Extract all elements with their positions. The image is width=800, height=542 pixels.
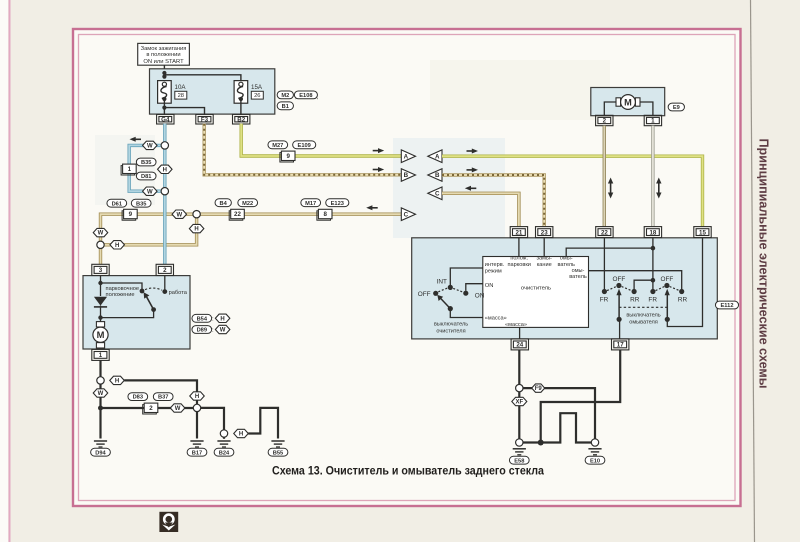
- splice circle E58: [516, 439, 523, 446]
- svg-text:W: W: [147, 144, 153, 150]
- OFF1 contact dot: [616, 283, 621, 288]
- washer pivot dot 2: [665, 317, 670, 322]
- connector 15: [694, 227, 711, 238]
- svg-text:D94: D94: [95, 450, 106, 456]
- svg-text:H: H: [239, 432, 243, 438]
- connector 17: [612, 339, 629, 350]
- svg-text:положение: положение: [106, 292, 135, 298]
- wire 23 to box: [543, 238, 545, 257]
- svg-text:парковочное: парковочное: [106, 286, 140, 292]
- label B17: [187, 448, 207, 456]
- svg-text:21: 21: [515, 229, 522, 236]
- wire омыватель top to washer switch: [566, 248, 653, 256]
- label E9: [668, 103, 684, 111]
- svg-text:омы-: омы-: [572, 268, 585, 274]
- svg-text:INT: INT: [437, 278, 447, 285]
- svg-text:B: B: [435, 172, 440, 179]
- connector 3 motor: [92, 264, 109, 275]
- splice circle E10: [591, 439, 598, 446]
- label B35 lower: [131, 199, 151, 207]
- washer pump box: [591, 88, 665, 116]
- svg-text:B35: B35: [141, 160, 151, 166]
- label D83: [128, 393, 148, 401]
- hexagon W below splice: [93, 389, 108, 397]
- splice circle 24: [516, 384, 523, 391]
- svg-text:15: 15: [699, 229, 706, 236]
- wire 22 to FR1: [603, 238, 605, 289]
- wiper switch arm: [437, 295, 450, 309]
- wire 21 to box: [518, 238, 520, 257]
- connector 1 motor: [92, 349, 109, 360]
- wire pump 1 to switch 18: [651, 126, 654, 227]
- wire A from B2: [241, 124, 401, 156]
- wire 18 to FR2: [652, 238, 654, 289]
- label E112: [715, 301, 738, 309]
- label 28 box: [175, 91, 187, 99]
- wire to ground B24: [223, 437, 225, 439]
- svg-text:E108: E108: [299, 93, 312, 99]
- svg-text:F3: F3: [201, 116, 209, 123]
- label полож парковки: [507, 256, 530, 268]
- connector F3: [196, 114, 213, 124]
- svg-text:RR: RR: [678, 297, 688, 304]
- svg-text:E9: E9: [673, 105, 680, 111]
- label D94: [91, 448, 111, 456]
- FR1 contact dot: [602, 289, 607, 294]
- svg-text:18: 18: [649, 229, 656, 236]
- INT contact dot: [448, 285, 453, 290]
- svg-text:M: M: [97, 329, 105, 340]
- wire pump 2 to switch 22: [603, 126, 606, 227]
- hexagon W on ground wire: [170, 404, 185, 412]
- ground B55: [271, 441, 284, 447]
- svg-text:ватель: ватель: [569, 274, 587, 280]
- svg-text:H: H: [194, 227, 198, 233]
- wiper switch dashed arc: [438, 288, 463, 292]
- wire horizontal to B17: [101, 407, 194, 409]
- junction dot 18 wire: [651, 246, 656, 251]
- label E123: [326, 199, 349, 207]
- wire ON to box: [466, 284, 483, 291]
- label B55: [268, 448, 288, 456]
- hexagon H on riser: [190, 392, 205, 400]
- arrow on wire A right: [467, 149, 479, 154]
- outer pink frame: [73, 29, 741, 506]
- svg-text:B54: B54: [197, 316, 208, 322]
- svg-text:2: 2: [149, 405, 153, 412]
- blue wire left loop: [129, 145, 161, 191]
- svg-text:FR: FR: [600, 297, 609, 304]
- OFF2 contact dot: [664, 283, 669, 288]
- wire C from motor connector 3: [101, 214, 402, 264]
- right page crease line: [751, 0, 755, 542]
- ground E10: [588, 449, 601, 455]
- wire splice down: [99, 384, 101, 438]
- washer switch 2 dashed arc: [656, 287, 680, 291]
- FR2 contact dot: [650, 289, 655, 294]
- washer arm 1: [616, 289, 621, 320]
- svg-text:M22: M22: [242, 201, 253, 207]
- connector 24: [511, 339, 528, 350]
- svg-text:24: 24: [516, 342, 523, 349]
- wire jog to B55: [248, 408, 278, 439]
- svg-text:10A: 10A: [175, 84, 187, 91]
- hexagon H on branch: [110, 241, 125, 249]
- page inner area: [74, 30, 740, 505]
- svg-text:режим: режим: [485, 268, 502, 274]
- splice circle 2: [193, 404, 200, 411]
- ground D94: [94, 441, 107, 447]
- hexagon XF: [512, 397, 527, 405]
- hexagon H right of splice: [110, 376, 125, 384]
- label E108: [294, 91, 317, 99]
- svg-text:OFF: OFF: [613, 276, 626, 283]
- svg-text:B4: B4: [220, 201, 228, 207]
- svg-text:W: W: [98, 231, 104, 237]
- double arrow on pump wire 1: [656, 178, 661, 199]
- wire A to connector 15: [442, 156, 703, 226]
- svg-text:Принципиальные электрические с: Принципиальные электрические схемы: [757, 139, 771, 389]
- svg-text:очиститель: очиститель: [521, 286, 551, 292]
- svg-text:кание: кание: [537, 262, 552, 268]
- svg-text:M: M: [624, 97, 632, 107]
- motor internal wire left: [100, 276, 102, 296]
- wire splice2 to B24: [201, 408, 224, 430]
- wire INT to box: [450, 268, 483, 285]
- label 26 box: [251, 91, 263, 99]
- double arrow on pump wire 2: [608, 178, 613, 199]
- washer arm 2: [665, 289, 670, 320]
- inner function box: [483, 257, 589, 328]
- label B1: [277, 102, 293, 110]
- ground E58: [513, 449, 526, 455]
- grommet 2 on ground wire: [143, 403, 158, 414]
- wire B to connector 23: [442, 175, 544, 227]
- svg-text:15A: 15A: [251, 84, 263, 91]
- svg-text:Замок зажигания: Замок зажигания: [141, 46, 187, 52]
- svg-text:W: W: [220, 328, 226, 334]
- motor switch dashed arc: [145, 288, 162, 290]
- svg-text:ON или START: ON или START: [143, 59, 184, 65]
- svg-text:1: 1: [651, 118, 655, 125]
- label B24: [214, 448, 234, 456]
- fuse box: [150, 69, 275, 114]
- svg-text:26: 26: [254, 93, 260, 99]
- connector 22 switch: [596, 227, 613, 238]
- triangle B left: [401, 169, 415, 182]
- pump motor symbol: [616, 95, 640, 110]
- wire ignition to fuse box: [163, 65, 165, 82]
- grommet 9 on wire C: [122, 209, 137, 220]
- hexagon W lower: [143, 187, 158, 195]
- wiper motor box: [83, 276, 190, 349]
- label E58: [509, 456, 529, 464]
- triangle B right: [428, 169, 442, 182]
- hexagon F9: [532, 384, 545, 392]
- arrow on wire C left: [366, 205, 378, 210]
- label M2: [277, 91, 293, 99]
- label B4: [215, 199, 231, 207]
- triangle A right: [428, 150, 442, 163]
- connector 2 pump: [596, 115, 613, 125]
- wiper washer switch box: [412, 238, 718, 339]
- label B54 with H: [192, 314, 230, 323]
- wire jog to E10: [541, 413, 592, 442]
- label E109: [293, 141, 316, 149]
- svg-text:W: W: [176, 212, 182, 218]
- svg-text:интерв.: интерв.: [485, 262, 505, 268]
- connector circle lower: [161, 188, 168, 195]
- hexagon H on blue wire: [158, 165, 173, 173]
- svg-text:XF: XF: [515, 400, 523, 406]
- svg-text:1: 1: [99, 352, 103, 359]
- svg-text:22: 22: [234, 211, 241, 218]
- junction dot feed 2: [162, 75, 166, 79]
- svg-text:D61: D61: [112, 201, 122, 207]
- junction dot motor: [98, 315, 102, 319]
- svg-text:A: A: [404, 153, 409, 160]
- label интерв режим: [485, 262, 505, 274]
- hexagon W left riser: [93, 228, 108, 236]
- wire масса to 24: [519, 327, 521, 339]
- wire C to connector 21: [442, 193, 519, 226]
- arrow top left: [130, 137, 142, 142]
- svg-text:H: H: [115, 243, 119, 249]
- motor switch pivot dot: [151, 307, 156, 312]
- работа contact dot: [162, 289, 167, 294]
- ground B24: [217, 441, 230, 447]
- wire pivot to motor branch: [101, 310, 154, 318]
- label M27: [268, 141, 288, 149]
- arrow on wire B left: [373, 167, 385, 172]
- label B35 upper: [136, 158, 156, 166]
- junction dot ground wire: [98, 406, 103, 411]
- svg-text:E123: E123: [331, 201, 344, 207]
- hexagon H below circle: [189, 224, 204, 232]
- wire splice to right riser: [124, 380, 197, 404]
- svg-text:23: 23: [541, 229, 548, 236]
- grommet 9 on wire A: [280, 151, 295, 162]
- connector 23: [536, 227, 553, 238]
- scan mottling tints: [95, 60, 610, 238]
- ON contact dot: [463, 291, 468, 296]
- wiper pivot dot: [448, 306, 453, 311]
- wire splice E58 to dot: [523, 441, 541, 443]
- wire branch to F3: [164, 108, 204, 115]
- svg-text:OFF: OFF: [661, 276, 674, 283]
- svg-text:H: H: [163, 167, 167, 173]
- wire 15 to pivot2: [667, 238, 702, 327]
- svg-text:B2: B2: [237, 116, 245, 123]
- connector B2: [233, 114, 250, 124]
- connector 1 pump: [644, 115, 661, 125]
- wire pivot1 to 17: [619, 319, 621, 339]
- connector 21: [510, 227, 527, 238]
- label M17: [301, 199, 321, 207]
- left page edge strip: [0, 0, 10, 542]
- arrow on wire A left: [373, 148, 385, 153]
- hexagon H right of B24 splice: [234, 429, 249, 437]
- svg-text:D81: D81: [141, 174, 151, 180]
- connector circle on wire C: [193, 211, 200, 218]
- svg-text:B24: B24: [219, 450, 230, 456]
- svg-text:1: 1: [128, 166, 132, 173]
- connector circle left branch: [97, 241, 104, 248]
- svg-text:выключатель: выключатель: [434, 321, 468, 327]
- OFF contact dot: [433, 291, 438, 296]
- svg-text:E109: E109: [298, 143, 311, 149]
- svg-text:H: H: [195, 394, 199, 400]
- wire RR1 link: [634, 280, 653, 289]
- svg-text:H: H: [115, 379, 119, 385]
- grommet 1 on loop: [121, 164, 136, 175]
- svg-text:B37: B37: [158, 395, 168, 401]
- svg-text:17: 17: [617, 342, 624, 349]
- triangle C left: [401, 208, 415, 221]
- svg-text:C: C: [404, 211, 409, 218]
- wire to parking contact: [101, 283, 143, 289]
- svg-text:W: W: [98, 391, 104, 397]
- splice circle 3: [220, 430, 227, 437]
- motor switch arm: [144, 292, 154, 309]
- label M22: [238, 199, 258, 207]
- RR1 contact dot: [632, 289, 637, 294]
- fuse F2 15A: [234, 81, 248, 104]
- svg-text:парковки: парковки: [507, 262, 530, 268]
- label D89 with W: [192, 325, 230, 334]
- svg-text:M17: M17: [305, 201, 316, 207]
- wire H parallel branch: [104, 218, 196, 245]
- svg-text:G4: G4: [161, 116, 170, 123]
- label выключатель омывателя: [626, 313, 660, 326]
- label E10: [585, 456, 605, 464]
- arrow on wire B right: [467, 167, 479, 172]
- svg-text:8: 8: [323, 211, 327, 218]
- label замыкание: [536, 256, 552, 268]
- svg-text:D83: D83: [133, 395, 143, 401]
- label парковочное положение: [106, 286, 140, 298]
- svg-text:OFF: OFF: [418, 291, 431, 298]
- connector G4: [157, 114, 174, 124]
- wire 17 down: [541, 350, 621, 443]
- svg-text:B17: B17: [192, 450, 202, 456]
- svg-text:22: 22: [601, 229, 608, 236]
- junction dot feed 1: [162, 71, 166, 75]
- svg-text:B35: B35: [136, 201, 146, 207]
- arrow on wire C right: [465, 186, 477, 191]
- wire 24 down: [518, 350, 520, 385]
- svg-text:B: B: [404, 172, 409, 179]
- ground B17: [190, 441, 203, 447]
- label выключатель очистителя: [434, 321, 468, 334]
- label омыватель right: [569, 268, 587, 280]
- triangle C right: [428, 187, 442, 200]
- inner pink frame: [79, 35, 736, 501]
- svg-text:в положении: в положении: [146, 52, 180, 58]
- fuse F1 10A: [158, 81, 172, 104]
- wire XF down: [518, 392, 520, 439]
- wire motor to splice: [99, 360, 101, 376]
- svg-text:ON: ON: [485, 283, 494, 289]
- svg-text:A: A: [435, 153, 440, 160]
- hexagon W upper: [143, 141, 158, 149]
- svg-text:E58: E58: [514, 458, 524, 464]
- junction dot parking: [98, 281, 102, 285]
- svg-text:M27: M27: [272, 143, 283, 149]
- wire diode to motor: [100, 307, 102, 323]
- junction dot bottom: [538, 440, 544, 446]
- svg-text:выключатель: выключатель: [626, 313, 660, 319]
- wire splice to ground E10: [523, 388, 595, 439]
- svg-text:ON: ON: [475, 292, 485, 299]
- svg-text:D89: D89: [197, 328, 207, 334]
- grommet 8 on wire C: [317, 209, 332, 220]
- svg-text:H: H: [220, 316, 224, 322]
- svg-text:M2: M2: [281, 93, 289, 99]
- svg-text:9: 9: [286, 153, 290, 160]
- grommet 22 on wire C: [229, 209, 244, 220]
- svg-text:2: 2: [603, 118, 607, 125]
- RR2 contact dot: [679, 289, 684, 294]
- svg-text:2: 2: [163, 267, 167, 274]
- diode: [94, 297, 107, 307]
- svg-text:F9: F9: [535, 386, 543, 392]
- svg-text:работа: работа: [169, 290, 188, 296]
- wire pivot to масса: [450, 309, 483, 318]
- svg-text:B1: B1: [282, 104, 289, 110]
- svg-text:Схема 13. Очиститель и омывате: Схема 13. Очиститель и омыватель заднего…: [272, 464, 544, 478]
- svg-text:RR: RR: [630, 297, 640, 304]
- label B37: [153, 393, 173, 401]
- svg-text:E10: E10: [590, 458, 600, 464]
- blue wire main: [163, 124, 166, 264]
- svg-text:28: 28: [178, 93, 184, 99]
- splice circle 1: [97, 377, 104, 384]
- svg-text:«масса»: «масса»: [505, 322, 527, 328]
- junction dot fuse1 out: [162, 106, 166, 110]
- svg-text:W: W: [175, 406, 181, 412]
- label омыватель top: [557, 256, 575, 268]
- wire splice2 to ground B17: [196, 412, 198, 439]
- svg-text:C: C: [435, 191, 440, 198]
- svg-text:FR: FR: [648, 297, 657, 304]
- triangle A left: [401, 150, 415, 163]
- svg-text:9: 9: [129, 211, 133, 218]
- ignition switch box: [138, 43, 190, 65]
- wire fuse2 output: [240, 101, 242, 115]
- motor M symbol: [93, 322, 108, 348]
- svg-text:,: ,: [317, 93, 319, 100]
- hexagon W on wire C: [172, 210, 187, 218]
- label D81: [136, 172, 156, 180]
- label D61: [107, 199, 127, 207]
- wire B from F3: [204, 124, 401, 175]
- svg-text:омывателя: омывателя: [629, 320, 658, 326]
- svg-text:E112: E112: [721, 303, 734, 309]
- svg-text:«масса»: «масса»: [485, 316, 507, 322]
- washer switch 1 dashed arc: [607, 287, 631, 291]
- publisher logo: [159, 512, 178, 532]
- wire fuse1 output: [163, 101, 165, 115]
- работа contact wire: [164, 276, 166, 290]
- svg-text:3: 3: [99, 267, 103, 274]
- svg-text:очистителя: очистителя: [436, 328, 465, 334]
- junction dot RR1 link: [651, 278, 656, 283]
- washer pivot dot 1: [617, 317, 622, 322]
- wire fuse feed branch: [164, 75, 241, 82]
- washer linkage dashed: [619, 306, 667, 308]
- connector 18: [644, 227, 661, 238]
